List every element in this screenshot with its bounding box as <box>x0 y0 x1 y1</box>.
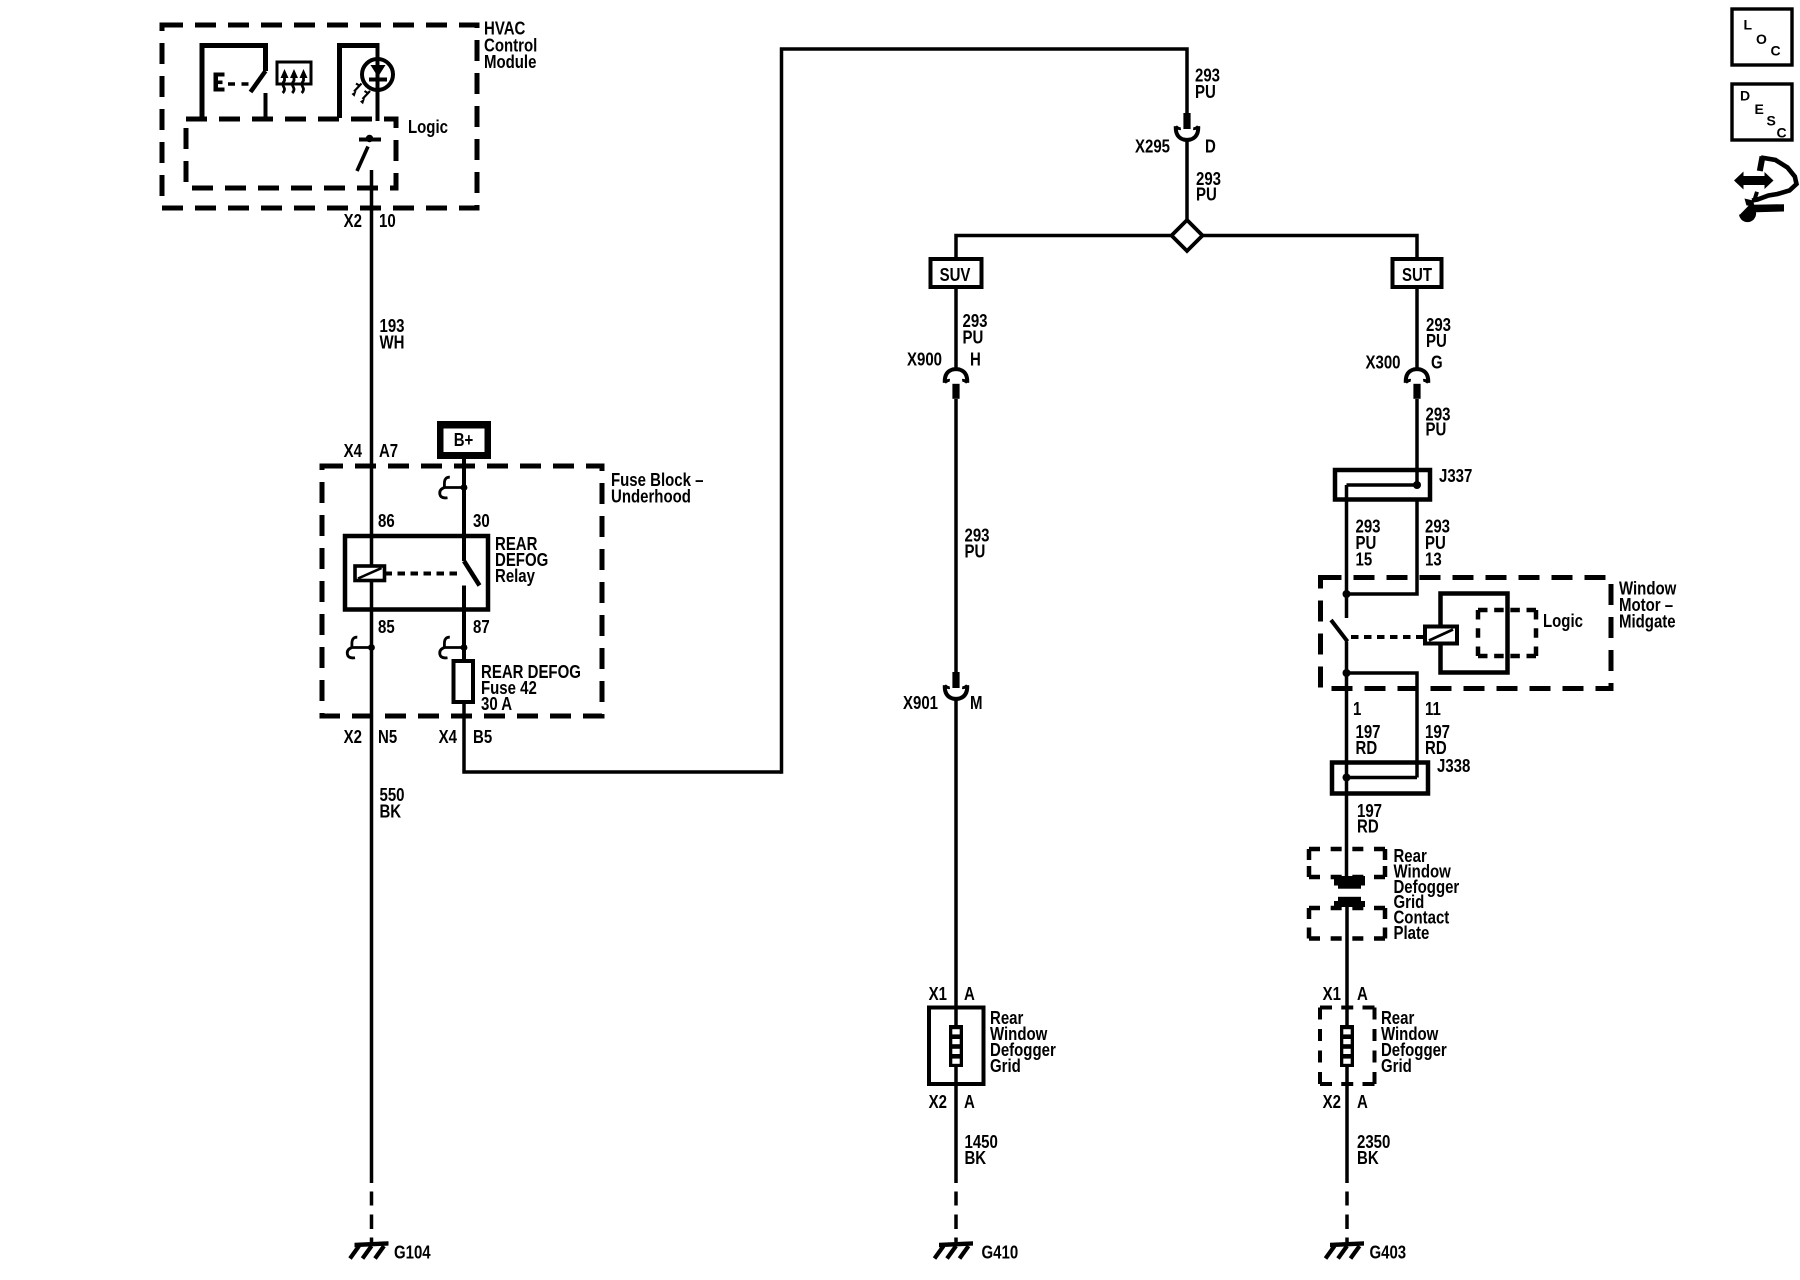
junction dot 15/13 <box>1343 590 1351 598</box>
svg-text:X2: X2 <box>1323 1092 1341 1113</box>
svg-text:N5: N5 <box>378 727 397 748</box>
svg-text:Logic: Logic <box>408 117 448 138</box>
grid heating element (SUT) <box>1340 1025 1354 1067</box>
svg-text:S: S <box>1767 113 1776 129</box>
svg-text:Plate: Plate <box>1394 923 1430 944</box>
svg-text:10: 10 <box>379 211 396 232</box>
B+ battery feed symbol <box>437 421 491 459</box>
svg-text:X901: X901 <box>903 693 938 714</box>
svg-text:Underhood: Underhood <box>611 486 691 507</box>
svg-text:G410: G410 <box>982 1242 1019 1263</box>
svg-text:A7: A7 <box>379 441 398 462</box>
svg-text:BK: BK <box>1357 1148 1379 1169</box>
svg-text:J338: J338 <box>1437 756 1470 777</box>
ground G104 <box>350 1241 389 1258</box>
ground G403 <box>1326 1241 1365 1258</box>
logic output switch <box>357 135 381 171</box>
wire X900 to X901 <box>954 399 958 672</box>
svg-text:G: G <box>1431 352 1443 373</box>
LOC icon box <box>1732 9 1792 65</box>
svg-text:PU: PU <box>965 541 986 562</box>
Rear Window Defogger Grid box (SUV) <box>929 1008 984 1085</box>
splice pack J337 <box>1335 470 1430 500</box>
svg-text:PU: PU <box>1426 419 1447 440</box>
wire J337 pin 15 to window motor <box>1345 485 1349 618</box>
Fuse Block - Underhood box <box>322 466 602 716</box>
svg-text:B5: B5 <box>473 727 492 748</box>
connector X900 pin H <box>945 369 967 399</box>
svg-text:E: E <box>1755 101 1764 117</box>
svg-text:PU: PU <box>1426 331 1447 352</box>
svg-text:X2: X2 <box>344 211 362 232</box>
REAR DEFOG Fuse 42 <box>454 661 474 702</box>
REAR DEFOG Relay box <box>345 536 488 610</box>
terminal clip at 85 <box>347 637 375 658</box>
svg-text:C: C <box>1777 125 1787 141</box>
svg-text:13: 13 <box>1425 549 1442 570</box>
svg-text:D: D <box>1740 88 1750 104</box>
connector X295 pin D <box>1176 113 1198 140</box>
svg-text:Midgate: Midgate <box>1619 611 1676 632</box>
svg-text:X1: X1 <box>929 984 947 1005</box>
svg-text:A: A <box>1357 1092 1368 1113</box>
dashed ground lead G104 <box>370 1192 374 1243</box>
terminal clip at relay 30 <box>440 477 468 498</box>
svg-text:RD: RD <box>1357 816 1379 837</box>
svg-text:M: M <box>970 693 982 714</box>
svg-text:1: 1 <box>1353 699 1361 720</box>
svg-text:X2: X2 <box>929 1092 947 1113</box>
switch S1 (defog request) in HVAC <box>202 46 266 119</box>
svg-text:85: 85 <box>378 617 395 638</box>
window motor coil <box>1425 627 1457 644</box>
terminal clip at 87 <box>440 637 468 658</box>
svg-text:SUT: SUT <box>1402 265 1433 286</box>
svg-text:Grid: Grid <box>990 1056 1021 1077</box>
svg-text:30 A: 30 A <box>481 694 512 715</box>
Logic box in HVAC <box>186 119 396 188</box>
wire 293 PU riser and top run <box>782 49 1188 774</box>
svg-text:B+: B+ <box>454 430 474 451</box>
wire J337 pin 13 to window motor <box>1347 499 1418 594</box>
svg-text:L: L <box>1744 17 1753 33</box>
svg-text:Module: Module <box>484 51 536 72</box>
window motor dashed actuator link <box>1351 635 1424 639</box>
svg-text:86: 86 <box>378 511 395 532</box>
svg-text:Relay: Relay <box>495 566 536 587</box>
svg-text:PU: PU <box>1195 81 1216 102</box>
LED D1 diode <box>369 65 387 82</box>
svg-text:A: A <box>1357 984 1368 1005</box>
window motor logic loop <box>1441 594 1508 673</box>
svg-text:PU: PU <box>1196 184 1217 205</box>
SUT tag box <box>1393 259 1442 287</box>
wire X901 to defogger grid <box>954 701 958 1026</box>
wire from coil to ground lead <box>370 581 374 1184</box>
HVAC Control Module box <box>162 25 477 208</box>
wire contact plate to defogger grid <box>1345 907 1349 1025</box>
wire X300 to J337 <box>1415 399 1419 485</box>
svg-text:O: O <box>1756 31 1767 47</box>
svg-text:X295: X295 <box>1135 136 1170 157</box>
LED indicator box <box>340 46 378 119</box>
wire window motor pin 11 to J338 <box>1347 673 1418 778</box>
svg-text:RD: RD <box>1356 738 1378 759</box>
wire fuse to corner <box>464 702 782 772</box>
connector X901 pin M <box>945 672 967 699</box>
relay switch blade 30-87 <box>464 561 480 586</box>
Rear Window Defogger Grid Contact Plate box lower <box>1309 908 1385 939</box>
connector X300 pin G <box>1406 369 1428 399</box>
svg-text:X1: X1 <box>1323 984 1341 1005</box>
svg-text:WH: WH <box>380 332 405 353</box>
window motor switch blade <box>1331 620 1348 642</box>
svg-text:C: C <box>1771 43 1781 59</box>
Rear Window Defogger Grid Contact Plate box upper <box>1309 849 1385 877</box>
SUV tag box <box>931 259 982 287</box>
navigate arrows icon <box>1734 157 1797 201</box>
wire SUT to X300 <box>1415 287 1419 371</box>
wire B+ to relay 30 <box>462 459 466 561</box>
Window Motor - Midgate box <box>1321 578 1612 689</box>
Logic box (window motor) <box>1478 610 1536 656</box>
splice pack J338 <box>1332 763 1428 794</box>
wire X295 to splice diamond <box>1185 142 1189 222</box>
svg-text:PU: PU <box>963 327 984 348</box>
svg-text:D: D <box>1205 136 1216 157</box>
DESC icon letters <box>1740 88 1787 141</box>
wire 193 WH from HVAC pin 10 to coil <box>370 170 374 566</box>
wire grid to ground lead (SUV) <box>954 1067 958 1183</box>
contact plate upper contact <box>1334 876 1365 889</box>
wire SUV to X900 <box>954 287 958 371</box>
ground G410 <box>935 1241 974 1258</box>
LED D1 circle <box>362 59 393 90</box>
wire relay 87 to fuse <box>462 586 466 664</box>
svg-text:H: H <box>970 349 981 370</box>
LED light arrows <box>352 84 371 105</box>
defrost indicator icon <box>277 62 311 93</box>
svg-text:30: 30 <box>473 511 490 532</box>
wrench icon <box>1734 199 1785 223</box>
switch actuator label E with dashed link <box>214 73 250 92</box>
LED D1 wire <box>376 43 380 121</box>
svg-text:X2: X2 <box>344 727 362 748</box>
svg-text:X900: X900 <box>907 349 942 370</box>
wire grid to ground lead (SUT) <box>1345 1067 1349 1183</box>
svg-text:J337: J337 <box>1439 466 1472 487</box>
svg-text:15: 15 <box>1356 549 1373 570</box>
splice diamond <box>1172 220 1203 251</box>
svg-text:X4: X4 <box>439 727 458 748</box>
svg-text:BK: BK <box>380 801 402 822</box>
svg-text:G403: G403 <box>1370 1242 1407 1263</box>
svg-text:SUV: SUV <box>940 265 972 286</box>
svg-text:87: 87 <box>473 617 490 638</box>
svg-text:A: A <box>964 984 975 1005</box>
DESC icon box <box>1732 84 1792 140</box>
svg-text:BK: BK <box>965 1148 987 1169</box>
grid heating element (SUV) <box>949 1025 963 1067</box>
relay dashed actuator link <box>385 572 460 576</box>
wire blade to lower junction <box>1345 642 1349 877</box>
svg-text:G104: G104 <box>394 1242 431 1263</box>
wire diamond to SUT <box>1202 236 1417 260</box>
dashed ground lead G403 <box>1345 1192 1349 1243</box>
relay coil <box>355 566 385 581</box>
svg-text:A: A <box>964 1092 975 1113</box>
svg-text:X4: X4 <box>344 441 363 462</box>
wire diamond to SUV <box>956 236 1172 260</box>
junction dot 1/11 <box>1343 669 1351 677</box>
svg-text:X300: X300 <box>1365 352 1400 373</box>
contact plate lower contact <box>1334 897 1365 907</box>
svg-text:Grid: Grid <box>1381 1056 1412 1077</box>
svg-text:Logic: Logic <box>1543 611 1583 632</box>
Rear Window Defogger Grid box (SUT) <box>1320 1008 1375 1085</box>
LOC icon letters <box>1744 17 1781 59</box>
dashed ground lead G410 <box>954 1192 958 1243</box>
svg-text:11: 11 <box>1425 699 1441 720</box>
